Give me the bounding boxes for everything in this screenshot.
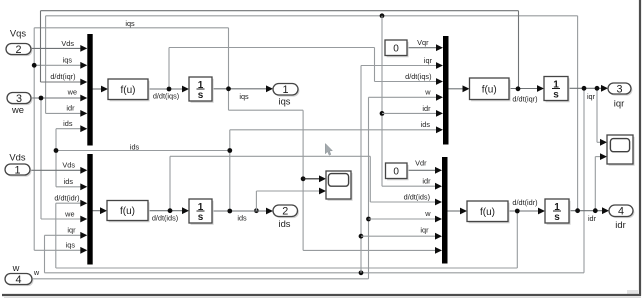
label mux M3 in6 ids [421, 120, 431, 129]
wire mux M4 to Fcn F4 [448, 208, 468, 215]
label mux M1 in6 ids [63, 119, 73, 128]
svg-text:f(u): f(u) [120, 206, 135, 217]
svg-text:2: 2 [15, 44, 21, 56]
label iqr outport name [614, 98, 624, 109]
svg-text:idr: idr [66, 104, 75, 113]
Fcn F2 f(u) [107, 201, 150, 223]
svg-text:s: s [198, 212, 204, 223]
label iqs feedback line [125, 19, 135, 28]
wire w to mux M3 input 4 [369, 94, 444, 101]
svg-text:idr: idr [588, 214, 597, 223]
svg-text:s: s [554, 212, 560, 223]
label mux M4 in2 idr [422, 177, 431, 186]
svg-text:s: s [553, 90, 559, 101]
svg-text:3: 3 [616, 83, 622, 95]
svg-text:2: 2 [282, 206, 288, 218]
label iqr before outport [587, 92, 596, 101]
svg-text:s: s [198, 90, 204, 101]
wire iqs feedback top [34, 28, 228, 251]
svg-text:idr: idr [422, 177, 431, 186]
label mux M1 in1 Vds [61, 39, 74, 48]
label mux M2 in5 iqr [67, 226, 76, 235]
svg-text:d/dt(iqs): d/dt(iqs) [153, 91, 179, 100]
wire constant zero1 to mux M3 input 1 [407, 44, 443, 51]
svg-text:Vds: Vds [9, 152, 25, 163]
svg-text:ids: ids [421, 120, 431, 129]
Fcn F1 f(u) [108, 79, 150, 101]
frame right edge [639, 0, 641, 296]
label mux M1 in4 we [67, 88, 77, 97]
wire integrator I4 to outport idr [569, 207, 609, 214]
svg-text:4: 4 [618, 206, 624, 218]
svg-text:we: we [64, 210, 74, 219]
wire Fcn F3 to integrator I3 [509, 85, 544, 92]
svg-text:w: w [33, 268, 40, 277]
label mux M1 in5 idr [66, 104, 75, 113]
wire d/dt(iqs) to mux M3 input 3 [169, 48, 443, 90]
input port 4 w [5, 274, 33, 287]
svg-text:f(u): f(u) [121, 85, 136, 96]
wire iqs to mux M1 input 2 [32, 62, 88, 69]
label idr outport name [615, 219, 625, 230]
wire integrator I2 to outport ids [212, 208, 273, 215]
svg-text:ids: ids [237, 214, 247, 223]
output port 3 iqr [608, 83, 632, 96]
wire iqr to mux M3 input 2 [361, 62, 443, 69]
wire ids to mux M3 input 6 [230, 126, 443, 133]
integrator I4 1/s [545, 199, 571, 225]
wire idr drop to muxes M3 M4 [380, 13, 385, 186]
wire we port to mux M1 input 4 [31, 95, 87, 102]
wire iqs to mux M2 input 6 [34, 247, 87, 254]
output port 1 iqs [273, 84, 299, 97]
label mux M2 in1 Vds [62, 161, 75, 170]
svg-text:3: 3 [16, 93, 22, 105]
label mux M3 in2 iqr [424, 56, 433, 65]
label ddt ids after F2 [152, 214, 178, 223]
Fcn F3 f(u) [470, 78, 511, 101]
label w wire tag [33, 268, 40, 277]
wire idr to scope S2 input 2 [595, 153, 607, 211]
wire Vds port to mux M2 input 1 [30, 167, 87, 174]
label ids feedback line [130, 142, 140, 151]
wire ids to mux M2 input 2 [56, 183, 87, 190]
svg-text:d/dt(ids): d/dt(ids) [152, 214, 178, 223]
wire w port run [367, 278, 369, 280]
mux M2 [87, 154, 92, 265]
integrator I1 1/s [189, 77, 214, 103]
svg-text:d/dt(idr): d/dt(idr) [512, 198, 537, 207]
svg-text:iqr: iqr [67, 226, 76, 235]
svg-text:iqs: iqs [125, 19, 135, 28]
wire idr to mux M4 input 2 [382, 183, 442, 190]
wire mux M1 to Fcn F1 [93, 86, 109, 93]
label mux M1 in2 iqs [63, 56, 73, 65]
label mux M4 in5 iqr [420, 226, 429, 235]
frame bottom edge [2, 295, 641, 297]
wire iqr riser to muxes M3 M4 [359, 66, 364, 276]
label mux M1 in3 ddt iqr [50, 72, 75, 81]
label mux M3 in4 w [424, 88, 431, 97]
wire we to mux M2 input 4 [41, 98, 87, 222]
label mux M3 in1 Vqr [417, 38, 429, 47]
label we port name [11, 104, 24, 115]
label ddt iqs after F1 [153, 91, 179, 100]
label mux M4 in4 w [424, 209, 431, 218]
label iqs outport name [279, 96, 291, 107]
integrator I3 1/s [544, 77, 570, 103]
svg-text:d/dt(ids): d/dt(ids) [404, 192, 430, 201]
wire w to mux M4 input 4 [366, 216, 442, 223]
svg-text:4: 4 [15, 274, 21, 286]
svg-text:1: 1 [282, 84, 288, 96]
svg-text:idr: idr [422, 104, 431, 113]
wire d/dt(iqr) to mux M1 input 3 [41, 11, 519, 89]
label iqs before outport [239, 92, 249, 101]
label mux M4 in3 ddt ids [404, 192, 430, 201]
svg-text:ids: ids [130, 142, 140, 151]
svg-text:iqr: iqr [587, 92, 596, 101]
scope S1 [326, 171, 353, 201]
constant zero1 Vqr [385, 40, 409, 57]
svg-text:idr: idr [615, 219, 625, 230]
label mux M2 in6 iqs [66, 241, 76, 250]
input port 1 Vds [5, 164, 31, 177]
wire iqr feedback bottom [45, 88, 585, 272]
wire mux M2 to Fcn F2 [93, 207, 108, 214]
label ddt iqr after F3 [512, 95, 537, 104]
svg-text:w: w [12, 262, 20, 273]
svg-text:w: w [424, 88, 431, 97]
svg-text:iqr: iqr [614, 98, 624, 109]
wire d/dt(ids) to mux M4 input 3 [170, 156, 442, 210]
wire iqs lower branch to right [229, 110, 304, 250]
wire d/dt(idr) to mux M2 input 3 [56, 200, 518, 268]
frame artifact [627, 290, 638, 294]
wire Vqs port to mux M1 input 1 [31, 45, 87, 52]
svg-text:d/dt(iqs): d/dt(iqs) [405, 72, 431, 81]
svg-text:iqs: iqs [279, 96, 291, 107]
label Vqs port name [10, 28, 26, 39]
integrator I2 1/s [189, 199, 214, 225]
wire iqs to mux M4 input 6 [303, 247, 442, 254]
wire Fcn F1 to integrator I1 [148, 86, 189, 93]
wire idr feedback top [46, 16, 578, 211]
svg-text:iqr: iqr [420, 226, 429, 235]
svg-text:0: 0 [393, 43, 399, 54]
svg-text:we: we [67, 88, 77, 97]
wire constant zero2 to mux M4 input 1 [407, 167, 442, 174]
label mux M2 in2 ids [64, 177, 74, 186]
wire iqs to scope S1 input 1 [301, 175, 326, 182]
input port 2 Vqs [6, 44, 32, 57]
wire iqr to mux M4 input 5 [359, 233, 442, 240]
wire integrator I3 to outport iqr [568, 85, 608, 92]
label mux M2 in4 we [64, 210, 74, 219]
svg-text:we: we [11, 104, 24, 115]
label mux M4 in1 Vdr [415, 159, 427, 168]
wire idr to mux M3 input 5 [380, 110, 443, 117]
output port 4 idr [609, 205, 634, 218]
mux M4 [442, 157, 448, 264]
svg-text:Vds: Vds [61, 39, 74, 48]
Fcn F4 f(u) [467, 201, 510, 223]
output port 2 ids [273, 205, 299, 218]
svg-text:f(u): f(u) [480, 207, 495, 218]
svg-text:0: 0 [393, 166, 399, 177]
label ddt idr after F4 [512, 198, 537, 207]
input port 3 we [7, 93, 32, 106]
svg-text:w: w [424, 209, 431, 218]
mouse cursor [325, 144, 332, 156]
svg-text:iqr: iqr [424, 56, 433, 65]
mux M1 [87, 34, 92, 146]
wire iqr to mux M2 input 5 [45, 232, 88, 239]
label mux M3 in3 ddt iqs [405, 72, 431, 81]
svg-text:Vdr: Vdr [415, 159, 427, 168]
wire mux M3 to Fcn F3 [449, 85, 470, 92]
label ids outport name [279, 218, 291, 229]
wire Fcn F4 to integrator I4 [508, 208, 545, 215]
svg-text:d/dt(iqr): d/dt(iqr) [50, 72, 75, 81]
svg-text:iqs: iqs [66, 241, 76, 250]
label Vds port name [9, 152, 25, 163]
wire ids to scope S1 input 2 [254, 188, 326, 214]
label ids before outport [237, 214, 247, 223]
svg-text:Vqr: Vqr [417, 38, 429, 47]
label mux M2 in3 ddt idr [54, 194, 79, 203]
svg-text:Vqs: Vqs [10, 28, 26, 39]
scope S2 [607, 135, 635, 166]
svg-text:d/dt(idr): d/dt(idr) [54, 194, 79, 203]
svg-text:d/dt(iqr): d/dt(iqr) [512, 95, 537, 104]
wire ids feedback riser [54, 129, 233, 211]
wire idr to mux M1 input 5 [46, 110, 88, 117]
svg-text:ids: ids [63, 119, 73, 128]
wire iqr to scope S2 input 1 [597, 88, 607, 145]
svg-text:ids: ids [279, 218, 291, 229]
wire ids to mux M1 input 6 [56, 125, 87, 132]
svg-text:iqs: iqs [239, 92, 249, 101]
svg-text:f(u): f(u) [482, 84, 497, 95]
label w port name [12, 262, 20, 273]
svg-text:iqs: iqs [63, 56, 73, 65]
mux M3 [443, 36, 449, 145]
constant zero2 Vdr [386, 163, 409, 180]
svg-text:ids: ids [64, 177, 74, 186]
svg-text:Vds: Vds [62, 161, 75, 170]
label idr before outport [588, 214, 597, 223]
wire Fcn F2 to integrator I2 [148, 207, 189, 214]
wire w from port 4 [32, 97, 369, 278]
wire integrator I1 to outport iqs [212, 85, 273, 92]
label mux M3 in5 idr [422, 104, 431, 113]
svg-text:1: 1 [14, 164, 20, 176]
